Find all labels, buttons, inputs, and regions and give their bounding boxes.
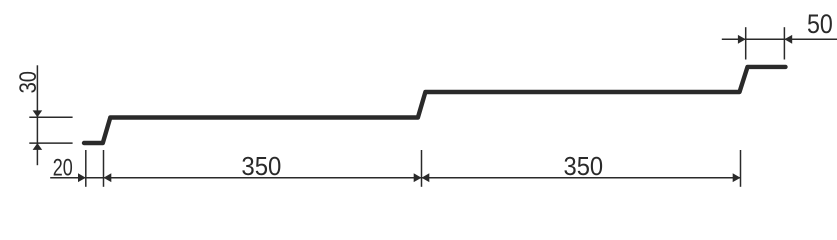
dim50 arrow left (outside right) <box>784 35 792 44</box>
dim350b arrow right at x740.5 <box>733 173 741 182</box>
dim50 arrow right (outside left) <box>738 35 746 44</box>
svg-text:30: 30 <box>15 71 42 93</box>
bottom extension line x421.5 <box>421 150 423 187</box>
dim50 extension line left <box>745 27 747 59</box>
profile outline (stepped panel cross-section) <box>84 67 786 143</box>
dim30 arrow down <box>33 110 43 117</box>
dim350a arrow right at x421.5 <box>414 173 422 182</box>
bottom extension line x740.5 <box>740 150 742 187</box>
dim350b arrow left at x421.5 <box>422 173 430 182</box>
bottom dimension line <box>50 177 740 179</box>
dim20 arrow right (outside left) <box>78 173 86 182</box>
bottom extension line x85.8 <box>85 150 87 187</box>
dim30 arrow up <box>33 143 43 150</box>
dim30 dimension line vertical <box>36 65 38 165</box>
dim30 extension line upper <box>29 116 72 118</box>
bottom extension line x103.5 <box>103 150 105 187</box>
svg-text:350: 350 <box>564 151 604 181</box>
dim50 extension line right <box>783 27 785 59</box>
svg-text:20: 20 <box>53 154 73 181</box>
dim50 dimension line <box>722 38 837 40</box>
svg-text:50: 50 <box>807 9 833 39</box>
dim20/dim350a arrow left at x103.5 <box>104 173 112 182</box>
dim30 extension line lower <box>29 142 72 144</box>
svg-text:350: 350 <box>241 151 281 181</box>
